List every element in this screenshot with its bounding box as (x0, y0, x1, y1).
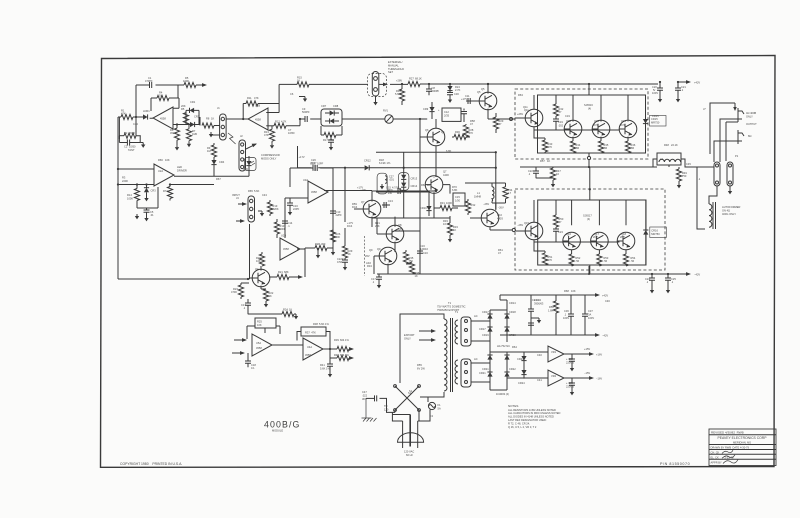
capacitor C38 (571, 354, 573, 359)
cap C10 (330, 135, 332, 140)
wire rail from U1B feedback (279, 84, 297, 103)
resistor R9 (213, 143, 215, 145)
resistor R33 (449, 216, 451, 223)
ground (270, 143, 274, 148)
svg-text:CR12: CR12 (364, 159, 371, 163)
svg-text:P/N 81550070: P/N 81550070 (660, 462, 690, 466)
wire U3A top feedback (290, 168, 333, 190)
capacitor C34 (530, 295, 532, 309)
resistor R36 (406, 262, 412, 264)
svg-text:47K: 47K (264, 133, 269, 137)
svg-text:SET: SET (388, 70, 393, 74)
diode CR15 (643, 119, 648, 124)
svg-text:−15V: −15V (584, 371, 590, 375)
svg-text:10PF: 10PF (317, 162, 324, 166)
svg-text:47K: 47K (254, 96, 259, 100)
svg-text:.1: .1 (564, 312, 567, 316)
svg-text:750: 750 (682, 174, 687, 178)
svg-text:400G ONLY: 400G ONLY (722, 212, 736, 216)
ground (144, 216, 148, 221)
svg-text:EXTERNAL/: EXTERNAL/ (388, 60, 403, 64)
svg-text:.56: .56 (631, 259, 635, 263)
resistor R24 (282, 311, 294, 316)
rail +42 (500, 299, 507, 301)
svg-text:U3A: U3A (303, 178, 308, 182)
wire speaker line (520, 166, 657, 168)
ground (140, 142, 143, 144)
svg-text:Q9: Q9 (377, 247, 381, 251)
svg-text:ONLY: ONLY (404, 336, 411, 340)
svg-text:C45: C45 (686, 162, 691, 166)
resistor R13 (271, 126, 273, 129)
svg-text:1K: 1K (427, 183, 430, 187)
svg-text:VR1: VR1 (551, 350, 557, 354)
resistor R39 (337, 346, 349, 351)
svg-text:C16: C16 (423, 251, 428, 255)
wire to autoformer (697, 167, 717, 229)
svg-text:CR14: CR14 (509, 301, 516, 305)
notes block (508, 404, 561, 429)
svg-text:J1: J1 (217, 106, 220, 110)
svg-text:300: 300 (321, 242, 326, 246)
resistor R34 (503, 187, 508, 199)
svg-text:C36: C36 (564, 309, 569, 313)
svg-text:6.8K: 6.8K (446, 149, 452, 153)
svg-text:+15V: +15V (584, 347, 590, 351)
svg-text:10K: 10K (571, 289, 576, 293)
resistor R27 (390, 83, 658, 85)
svg-text:CR13: CR13 (532, 298, 539, 302)
svg-text:AC: AC (474, 314, 478, 318)
svg-text:1/50: 1/50 (455, 198, 461, 202)
primary wires (400, 314, 444, 397)
svg-text:R37 47K: R37 47K (305, 331, 316, 335)
svg-text:C19: C19 (565, 114, 570, 118)
svg-text:220K: 220K (273, 207, 279, 211)
svg-text:NOTES: NOTES (508, 404, 518, 408)
svg-text:2.7K: 2.7K (455, 88, 461, 92)
resistor R6 (185, 111, 187, 113)
svg-text:4558: 4558 (256, 346, 262, 350)
svg-text:576: 576 (548, 145, 553, 149)
resistor R56 (555, 295, 557, 301)
svg-text:CR1: CR1 (190, 100, 196, 104)
svg-text:U5A: U5A (256, 341, 261, 345)
svg-text:MR750: MR750 (651, 232, 660, 236)
svg-text:C46: C46 (605, 299, 610, 303)
svg-text:CR24: CR24 (518, 381, 525, 385)
node input (135, 116, 137, 118)
svg-text:CR2: CR2 (194, 115, 200, 119)
svg-text:.002: .002 (558, 123, 564, 127)
svg-text:4.7/50: 4.7/50 (392, 186, 400, 190)
svg-text:R67: R67 (216, 177, 221, 181)
svg-text:20K: 20K (181, 104, 186, 108)
svg-text:J7: J7 (703, 107, 706, 111)
diode pair CR7 CR8 (321, 109, 342, 126)
svg-text:R38: R38 (313, 322, 318, 326)
svg-text:1K: 1K (159, 94, 162, 98)
svg-text:2N?: 2N? (620, 123, 625, 127)
diode CR9 (431, 102, 433, 107)
connector J5 (461, 317, 471, 346)
fuse F1 (428, 402, 435, 409)
resistor R44 (570, 141, 575, 153)
open circle node (512, 228, 515, 231)
svg-text:3KV: 3KV (362, 397, 367, 401)
svg-text:MODULE: MODULE (272, 429, 283, 433)
svg-text:1N4003 (4): 1N4003 (4) (496, 392, 509, 396)
svg-text:EXPORT: EXPORT (404, 333, 415, 337)
svg-text:2/35: 2/35 (444, 113, 450, 117)
svg-text:10/50: 10/50 (288, 131, 295, 135)
arrow lower (236, 220, 244, 222)
svg-text:R66: R66 (158, 158, 163, 162)
svg-text:470PF: 470PF (145, 79, 153, 83)
capacitor C23 (553, 229, 559, 231)
svg-text:2N?: 2N? (620, 235, 625, 239)
resistor R20 (261, 252, 263, 254)
svg-text:+17V: +17V (299, 155, 305, 159)
svg-text:REVISED 4/30/82 RWB: REVISED 4/30/82 RWB (711, 431, 744, 435)
svg-text:Q5: Q5 (481, 87, 485, 91)
emitter rail lower (589, 265, 591, 274)
transistor Q16 (563, 232, 581, 250)
svg-text:47K: 47K (121, 112, 126, 116)
ground (448, 98, 452, 103)
capacitor C39 (571, 378, 573, 383)
resistor R13 (276, 219, 278, 222)
dashed box upper (515, 89, 648, 159)
capacitor C24 (651, 274, 653, 278)
svg-text:Q6: Q6 (425, 128, 429, 132)
transistor Q6 (427, 128, 445, 146)
svg-text:C6: C6 (290, 92, 294, 96)
svg-text:500PF: 500PF (432, 89, 440, 93)
svg-text:CR8: CR8 (333, 104, 339, 108)
transistor Q11 driver (525, 109, 543, 127)
svg-text:(4): (4) (588, 106, 591, 110)
regulator VR2 (548, 370, 564, 386)
wire speaker bus left (298, 146, 365, 168)
svg-text:R41: R41 (320, 363, 325, 367)
ground (729, 186, 731, 189)
wire speaker to connector (697, 166, 714, 168)
svg-text:22PF: 22PF (293, 207, 300, 211)
wire jack wiring (714, 119, 742, 162)
wire J1 to U1B (226, 118, 248, 120)
resistor R35 (405, 250, 407, 252)
capacitor C11 (466, 100, 481, 102)
resistor R32 (467, 199, 469, 201)
connector J6 (461, 359, 471, 387)
long feedback wire (118, 278, 250, 280)
resistor R30 (452, 136, 470, 138)
svg-text:Q6: Q6 (441, 130, 445, 134)
svg-text:.56: .56 (631, 146, 635, 150)
capacitor C11b (398, 188, 400, 194)
svg-text:ONLY: ONLY (746, 114, 753, 118)
autoformer T2 (708, 203, 710, 205)
svg-text:DRIVER: DRIVER (177, 168, 187, 172)
capacitor C35 (530, 320, 532, 322)
wire U4A out (323, 348, 337, 350)
svg-text:R64: R64 (512, 345, 517, 349)
svg-text:8Ω: 8Ω (748, 134, 751, 138)
transistor Q9 (379, 247, 397, 265)
svg-text:R27: R27 (409, 77, 414, 81)
svg-text:1K: 1K (289, 308, 292, 312)
resistor R19 (269, 200, 271, 202)
svg-text:3900/63: 3900/63 (534, 301, 544, 305)
svg-text:R39: R39 (334, 338, 339, 342)
svg-text:4.7K: 4.7K (281, 119, 287, 123)
capacitor C13 (382, 204, 390, 206)
border frame (101, 56, 776, 468)
title block (709, 429, 776, 466)
svg-text:F1: F1 (438, 403, 442, 407)
svg-text:.56: .56 (604, 259, 608, 263)
transistor Q18 (617, 232, 635, 250)
svg-text:10K: 10K (165, 158, 170, 162)
wire long left feedback vertical (117, 117, 119, 279)
chassis ground (362, 398, 377, 421)
svg-text:DRAWN BY RWB DATE 4-30-79: DRAWN BY RWB DATE 4-30-79 (711, 446, 750, 450)
svg-text:4.7: 4.7 (508, 191, 512, 195)
svg-text:Q16: Q16 (566, 232, 571, 236)
svg-text:LED: LED (177, 165, 182, 169)
electrolytic C15 (453, 193, 465, 206)
wire to Q6 (393, 118, 427, 120)
ground J4 (258, 210, 262, 212)
svg-text:CR4: CR4 (219, 160, 225, 164)
svg-text:R63: R63 (518, 93, 523, 97)
svg-text:C30: C30 (454, 92, 459, 96)
svg-text:CR21: CR21 (482, 367, 489, 371)
wire arrows U5A input (234, 339, 246, 341)
capacitor C16 (394, 231, 420, 245)
svg-text:470: 470 (469, 131, 474, 135)
svg-text:CR16: CR16 (651, 229, 658, 233)
zener CR6 (449, 84, 451, 86)
wire collector stubs (572, 200, 626, 225)
svg-text:C44: C44 (133, 122, 138, 126)
wire +42V rail (588, 83, 590, 85)
svg-text:4403: 4403 (497, 216, 503, 220)
svg-text:LAST REF DESIGNATOR USED:: LAST REF DESIGNATOR USED: (508, 418, 547, 422)
svg-text:CR21: CR21 (479, 371, 486, 375)
svg-text:R34: R34 (367, 264, 372, 268)
svg-text:5.6K: 5.6K (254, 189, 260, 193)
capacitor C1 (150, 82, 152, 88)
svg-text:R31: R31 (440, 201, 445, 205)
svg-text:ALL DIODES IN 4148 UNLESS NOTE: ALL DIODES IN 4148 UNLESS NOTED (508, 415, 554, 419)
svg-text:6V 2W: 6V 2W (417, 366, 425, 370)
svg-text:R2: R2 (124, 131, 128, 135)
svg-text:RV1: RV1 (383, 109, 389, 113)
trimpot R25 bias (255, 318, 276, 328)
svg-text:4400: 4400 (443, 173, 449, 177)
voltage selector S1 (395, 386, 428, 410)
wire output loop (710, 103, 735, 154)
transistor Q4 (252, 269, 270, 287)
svg-text:100V: 100V (563, 316, 569, 320)
svg-text:U2B: U2B (281, 234, 286, 238)
diode CR3 (146, 185, 148, 188)
svg-text:+28V: +28V (396, 79, 402, 83)
wire collector stubs (573, 95, 628, 120)
capacitor C47 (380, 398, 396, 412)
transistor Q13 (592, 120, 610, 138)
thermal network (377, 173, 387, 194)
wire U2B out (297, 248, 305, 249)
capacitor C18 (247, 353, 249, 361)
connector P2 (727, 162, 733, 186)
svg-text:1.8K: 1.8K (548, 308, 554, 312)
svg-text:S1: S1 (409, 389, 413, 393)
svg-text:5.6K 1%: 5.6K 1% (319, 322, 329, 326)
svg-text:−16V: −16V (596, 377, 602, 381)
jack J1 (220, 114, 227, 140)
ground (187, 142, 191, 147)
svg-text:MANUAL: MANUAL (388, 63, 399, 67)
ground J3 (375, 96, 377, 100)
svg-text:604 1%: 604 1% (340, 353, 349, 357)
resistor R22 (263, 289, 268, 301)
svg-text:CR3: CR3 (151, 189, 157, 193)
capacitor C20 (659, 82, 661, 88)
capacitor C14b + ground (289, 198, 291, 203)
svg-text:Q7: Q7 (361, 200, 365, 204)
jack 8 ohm (738, 130, 744, 144)
diode CR14 (401, 183, 406, 188)
jack J2 compressor (239, 140, 246, 171)
svg-text:R71: R71 (163, 189, 168, 193)
wire base rail lower (534, 242, 619, 244)
capacitor C21 (677, 82, 679, 88)
svg-text:6.19K 1%: 6.19K 1% (379, 161, 391, 165)
svg-text:4558: 4558 (255, 118, 261, 122)
svg-text:Q12: Q12 (566, 119, 571, 123)
svg-text:R32: R32 (471, 203, 476, 207)
capacitor C14c (378, 274, 380, 277)
resistor R3 (118, 169, 154, 185)
svg-text:Q15: Q15 (524, 221, 529, 225)
svg-text:CR9: CR9 (423, 107, 429, 111)
wire U1B plus input (266, 104, 279, 113)
svg-text:HA 752 NC: HA 752 NC (497, 344, 510, 348)
svg-text:C37: C37 (588, 309, 593, 313)
svg-text:R56: R56 (549, 305, 554, 309)
svg-text:AUTOFORMER: AUTOFORMER (722, 205, 741, 209)
connector P1 (714, 162, 720, 186)
resistor R51 (544, 251, 546, 253)
bridge 2 CR21-24 (471, 352, 507, 390)
svg-text:R55: R55 (417, 363, 422, 367)
svg-text:+26V: +26V (517, 112, 523, 116)
jack J4 (248, 196, 255, 222)
svg-text:C11: C11 (465, 94, 470, 98)
op-amp U5A (252, 334, 272, 356)
svg-text:AC: AC (474, 357, 478, 361)
transistor Q5 (479, 92, 497, 110)
svg-text:CR22: CR22 (509, 367, 516, 371)
svg-text:22.1K: 22.1K (671, 143, 678, 147)
svg-text:500PF: 500PF (302, 110, 310, 114)
svg-text:.56: .56 (576, 259, 580, 263)
resistor R45 (598, 141, 603, 153)
svg-text:R11: R11 (247, 96, 252, 100)
svg-text:450K: 450K (129, 131, 135, 135)
transistor Q3 bias (425, 176, 443, 194)
capacitor C9 (300, 118, 321, 120)
resistor R40 (330, 349, 337, 358)
svg-text:6.8K: 6.8K (452, 188, 458, 192)
svg-text:P1: P1 (735, 154, 739, 158)
diode CR1 (186, 110, 199, 124)
svg-text:R17: R17 (323, 138, 328, 142)
svg-text:4558: 4558 (311, 190, 317, 194)
rail -42 (500, 334, 597, 336)
diode CR2 (186, 124, 199, 126)
svg-text:CR14: CR14 (411, 184, 418, 188)
svg-text:DC4: DC4 (347, 224, 353, 228)
svg-text:C15: C15 (386, 186, 391, 190)
emitter rail (588, 153, 590, 167)
svg-text:R65: R65 (248, 189, 253, 193)
module outline SJ6517 (538, 200, 646, 265)
wire bias rail (465, 183, 506, 187)
capacitor C25 (667, 274, 669, 278)
regulator VR1 (548, 346, 564, 362)
svg-text:ALL RESISTORS 1/4W UNLESS NOTE: ALL RESISTORS 1/4W UNLESS NOTED (508, 408, 556, 412)
svg-text:1K: 1K (297, 79, 300, 83)
wire entry (589, 167, 591, 200)
capacitor C14 (282, 221, 288, 223)
capacitor C2 tantalum (119, 117, 136, 139)
resistor R23 (240, 283, 242, 285)
capacitor C37 (584, 295, 586, 314)
svg-text:R21: R21 (278, 270, 283, 274)
wire base rail (534, 130, 619, 132)
resistor R29 (495, 113, 497, 117)
svg-text:−26V: −26V (498, 206, 504, 210)
svg-text:+42V: +42V (602, 294, 608, 298)
svg-text:CR17: CR17 (479, 327, 486, 331)
wire rail x=420 (419, 119, 421, 274)
svg-text:OUTPUT: OUTPUT (746, 122, 757, 126)
svg-text:.01: .01 (150, 213, 154, 217)
op-amp U1A (153, 107, 173, 129)
svg-text:Q14: Q14 (621, 119, 626, 123)
svg-text:400B/G: 400B/G (264, 420, 300, 430)
bridge CR17-CR20 (471, 300, 507, 352)
wire U1B output to varistor (342, 118, 385, 120)
svg-text:.022: .022 (362, 393, 368, 397)
svg-text:−42V: −42V (694, 273, 700, 277)
svg-text:−26V: −26V (483, 202, 489, 206)
capacitor C13b (315, 165, 317, 171)
dashed box lower (515, 189, 665, 270)
inductor L2 (657, 153, 681, 165)
svg-text:R30: R30 (455, 130, 460, 134)
svg-text:3A: 3A (588, 312, 591, 316)
resistor R28 (463, 109, 465, 111)
svg-text:LDR1: LDR1 (143, 109, 150, 113)
jack J3 external threshold (368, 74, 387, 97)
node (403, 167, 405, 169)
svg-text:DC4: DC4 (352, 205, 358, 209)
